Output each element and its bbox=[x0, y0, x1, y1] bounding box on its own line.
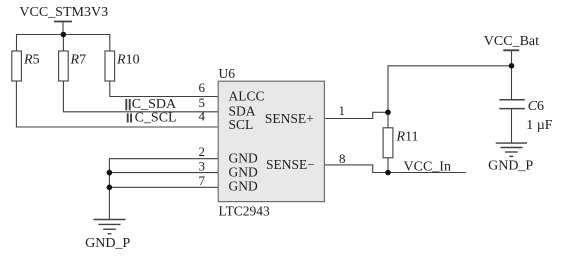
wire node to R11 bbox=[387, 112, 389, 128]
svg-text:2: 2 bbox=[199, 144, 206, 159]
svg-text:SENSE+: SENSE+ bbox=[265, 111, 314, 126]
resistor R5 bbox=[12, 51, 22, 81]
power symbol VCC_Bat bar bbox=[503, 49, 519, 51]
svg-text:VCC_In: VCC_In bbox=[404, 160, 451, 175]
junction dot node vcc_in bbox=[385, 170, 391, 176]
svg-text:LTC2943: LTC2943 bbox=[219, 204, 271, 219]
wire VCC_Bat stem to capacitor bbox=[511, 50, 513, 99]
junction dot pin3 bbox=[107, 170, 113, 176]
svg-text:U6: U6 bbox=[219, 66, 236, 81]
wire pin3 bbox=[109, 172, 218, 174]
power symbol VCC_STM3V3 bar bbox=[54, 21, 72, 23]
svg-text:3: 3 bbox=[199, 159, 206, 174]
junction dot pin7 bbox=[107, 185, 113, 191]
svg-text:R11: R11 bbox=[396, 130, 419, 145]
wire capacitor to ground bbox=[511, 109, 513, 143]
wire node up and across to VCC_Bat bbox=[388, 66, 512, 113]
svg-text:SCL: SCL bbox=[229, 117, 254, 132]
svg-text:6: 6 bbox=[199, 80, 206, 95]
svg-text:SENSE−: SENSE− bbox=[266, 157, 315, 172]
resistor R7 bbox=[59, 51, 69, 81]
junction dot vcc_bat bbox=[509, 63, 515, 69]
resistor R11 bbox=[383, 128, 393, 158]
svg-text:GND: GND bbox=[229, 164, 258, 179]
op-amp U6 IC body LTC2943 bbox=[218, 81, 324, 201]
svg-text:ALCC: ALCC bbox=[229, 88, 265, 103]
ground GND_P right bbox=[496, 143, 527, 156]
wire pin2 to gnd bus bbox=[109, 159, 218, 219]
wire pin7 bbox=[109, 186, 218, 188]
wire R10 to pin6 bbox=[110, 81, 218, 97]
wire power stem bbox=[62, 22, 64, 35]
capacitor C6 bbox=[499, 100, 525, 109]
I2C marker C_SCL bbox=[128, 113, 131, 122]
junction dot rail bbox=[61, 32, 67, 38]
svg-text:1: 1 bbox=[339, 103, 346, 118]
wire VCC_In bbox=[388, 172, 466, 174]
wire pin1 to node bbox=[324, 112, 388, 118]
svg-text:R7: R7 bbox=[70, 53, 87, 68]
wire rail to R5 R7 R10 bbox=[17, 35, 110, 52]
resistor R10 bbox=[105, 51, 115, 81]
svg-text:R10: R10 bbox=[116, 53, 140, 68]
wire R11 to VCC_In node bbox=[387, 158, 389, 173]
svg-text:4: 4 bbox=[199, 109, 206, 124]
I2C marker C_SDA bbox=[126, 99, 129, 110]
svg-text:8: 8 bbox=[339, 151, 346, 166]
svg-text:C6: C6 bbox=[528, 99, 544, 114]
svg-text:R5: R5 bbox=[23, 53, 40, 68]
svg-text:GND_P: GND_P bbox=[85, 236, 130, 251]
wire R7 to pin5 bbox=[63, 81, 218, 112]
junction dot node sense+ bbox=[385, 110, 391, 116]
svg-text:VCC_Bat: VCC_Bat bbox=[484, 34, 539, 49]
wire pin8 to node bbox=[324, 165, 388, 173]
svg-text:C_SCL: C_SCL bbox=[135, 110, 177, 125]
svg-text:GND: GND bbox=[229, 179, 258, 194]
wire R5 to pin4 bbox=[16, 81, 218, 127]
svg-text:GND_P: GND_P bbox=[488, 159, 533, 174]
svg-text:GND: GND bbox=[229, 151, 258, 166]
svg-text:VCC_STM3V3: VCC_STM3V3 bbox=[19, 5, 108, 20]
svg-text:7: 7 bbox=[199, 173, 206, 188]
svg-text:1 µF: 1 µF bbox=[526, 118, 553, 133]
ground GND_P left bbox=[94, 220, 126, 234]
